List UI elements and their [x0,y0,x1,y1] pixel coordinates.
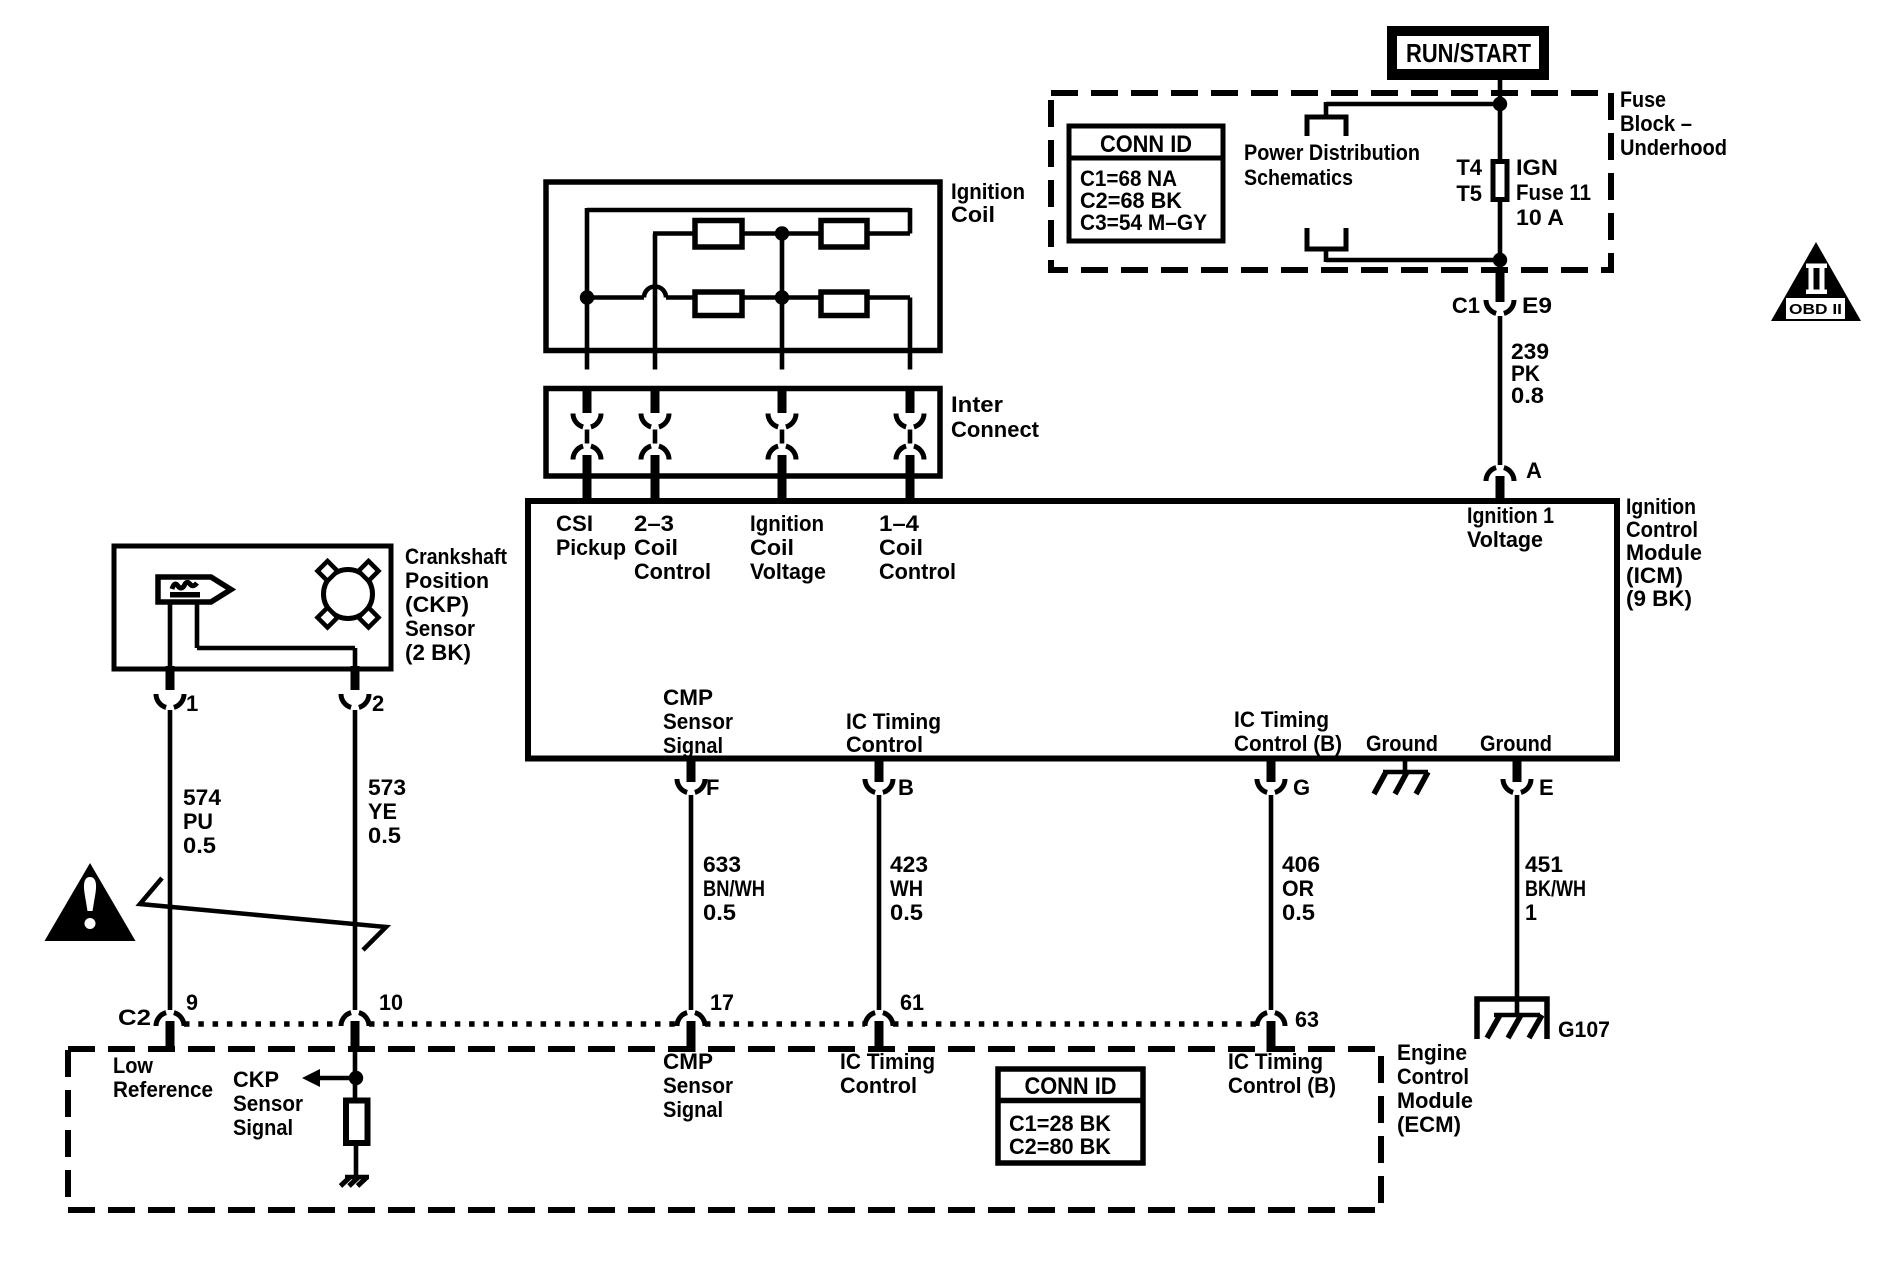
svg-text:Control: Control [879,559,956,584]
svg-text:Ground: Ground [1480,731,1552,756]
svg-text:T5: T5 [1456,181,1482,206]
svg-text:YE: YE [368,799,397,824]
svg-text:WH: WH [890,876,923,901]
svg-text:1: 1 [1525,900,1537,925]
svg-text:IC Timing: IC Timing [840,1049,935,1074]
svg-text:(CKP): (CKP) [405,592,469,617]
svg-text:61: 61 [900,990,924,1015]
svg-text:IC Timing: IC Timing [1234,707,1329,732]
svg-text:Control: Control [846,732,923,757]
svg-text:(ECM): (ECM) [1397,1112,1461,1137]
svg-text:Sensor: Sensor [663,1073,733,1098]
svg-text:Fuse: Fuse [1620,87,1666,112]
svg-text:0.5: 0.5 [890,900,923,925]
svg-text:Voltage: Voltage [1467,527,1543,552]
svg-text:IC Timing: IC Timing [1228,1049,1323,1074]
svg-text:IGN: IGN [1516,155,1558,180]
svg-text:C3=54 M–GY: C3=54 M–GY [1080,210,1207,235]
svg-text:Block –: Block – [1620,111,1692,136]
svg-text:423: 423 [890,852,928,877]
svg-text:CKP: CKP [233,1067,279,1092]
svg-text:Control: Control [634,559,711,584]
svg-text:T4: T4 [1456,155,1482,180]
svg-text:10 A: 10 A [1516,205,1564,230]
svg-text:RUN/START: RUN/START [1406,38,1531,68]
svg-text:Ignition: Ignition [1626,494,1696,519]
svg-text:Signal: Signal [663,1097,723,1122]
svg-text:Signal: Signal [233,1115,293,1140]
svg-text:574: 574 [183,785,222,810]
svg-text:Pickup: Pickup [556,535,626,560]
svg-text:0.8: 0.8 [1511,383,1544,408]
svg-text:F: F [706,775,719,800]
svg-text:C1=28 BK: C1=28 BK [1009,1111,1111,1136]
svg-text:0.5: 0.5 [703,900,736,925]
svg-text:Reference: Reference [113,1077,213,1102]
svg-text:Control (B): Control (B) [1234,731,1342,756]
svg-text:Module: Module [1397,1088,1473,1113]
svg-text:PU: PU [183,809,213,834]
svg-text:0.5: 0.5 [368,823,401,848]
svg-text:Sensor: Sensor [663,709,733,734]
svg-text:CMP: CMP [663,1049,713,1074]
svg-text:2: 2 [372,691,384,716]
svg-text:2–3: 2–3 [634,511,674,536]
svg-text:Voltage: Voltage [750,559,826,584]
svg-text:Low: Low [113,1053,154,1078]
svg-text:Engine: Engine [1397,1040,1467,1065]
svg-text:B: B [898,775,914,800]
svg-text:Module: Module [1626,540,1702,565]
svg-text:0.5: 0.5 [183,833,216,858]
svg-text:Position: Position [405,568,489,593]
svg-text:Ground: Ground [1366,731,1438,756]
svg-text:Control: Control [840,1073,917,1098]
svg-text:633: 633 [703,852,741,877]
svg-text:0.5: 0.5 [1282,900,1315,925]
svg-text:Coil: Coil [634,535,678,560]
svg-text:C1: C1 [1452,293,1480,318]
svg-text:G107: G107 [1558,1017,1610,1042]
svg-text:451: 451 [1525,852,1563,877]
svg-text:BN/WH: BN/WH [703,876,765,901]
svg-text:(ICM): (ICM) [1626,563,1683,588]
svg-text:Sensor: Sensor [233,1091,303,1116]
svg-text:Sensor: Sensor [405,616,475,641]
svg-text:A: A [1526,458,1542,483]
svg-text:10: 10 [379,990,403,1015]
svg-text:Ignition: Ignition [951,179,1025,204]
svg-text:9: 9 [186,990,198,1015]
svg-text:E: E [1539,775,1554,800]
svg-text:1: 1 [186,691,198,716]
svg-text:Underhood: Underhood [1620,135,1727,160]
svg-text:63: 63 [1295,1007,1319,1032]
svg-text:CSI: CSI [556,511,593,536]
svg-text:406: 406 [1282,852,1320,877]
svg-text:(2 BK): (2 BK) [405,640,471,665]
svg-text:CONN ID: CONN ID [1100,131,1192,158]
svg-text:Control: Control [1626,517,1698,542]
svg-text:C2=80 BK: C2=80 BK [1009,1134,1111,1159]
svg-text:Coil: Coil [951,202,995,227]
svg-text:17: 17 [710,990,734,1015]
svg-text:IC Timing: IC Timing [846,709,941,734]
svg-text:Ignition: Ignition [750,511,824,536]
svg-text:1–4: 1–4 [879,511,920,536]
svg-text:Schematics: Schematics [1244,165,1353,190]
svg-text:G: G [1293,775,1310,800]
svg-text:CONN ID: CONN ID [1025,1073,1117,1100]
svg-text:E9: E9 [1522,293,1552,318]
svg-text:CMP: CMP [663,685,713,710]
svg-text:Control (B): Control (B) [1228,1073,1336,1098]
svg-text:Crankshaft: Crankshaft [405,544,508,569]
svg-text:C2: C2 [118,1005,151,1030]
svg-text:Signal: Signal [663,733,723,758]
svg-text:(9 BK): (9 BK) [1626,586,1692,611]
svg-text:573: 573 [368,775,406,800]
svg-text:Ignition 1: Ignition 1 [1467,503,1554,528]
svg-text:Coil: Coil [879,535,923,560]
svg-text:OBD II: OBD II [1789,302,1842,318]
svg-text:OR: OR [1282,876,1314,901]
svg-text:Power Distribution: Power Distribution [1244,140,1420,165]
svg-text:Control: Control [1397,1064,1469,1089]
svg-text:Fuse 11: Fuse 11 [1516,180,1591,205]
svg-text:Connect: Connect [951,417,1040,442]
svg-text:BK/WH: BK/WH [1525,876,1586,901]
svg-text:Coil: Coil [750,535,794,560]
svg-text:Inter: Inter [951,392,1003,417]
